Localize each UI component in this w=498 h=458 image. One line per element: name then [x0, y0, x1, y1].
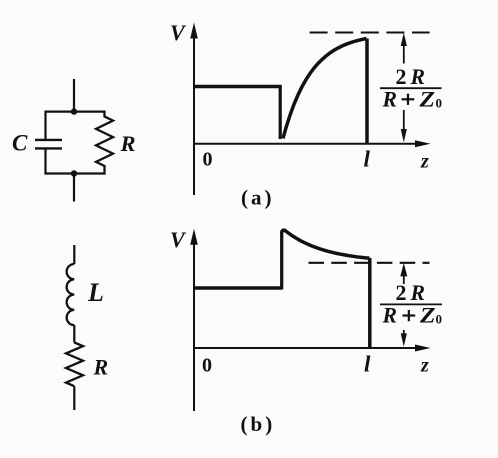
graph (a) dimension arrow lower head — [401, 129, 407, 142]
circuit (a): top horizontal wire — [46, 110, 105, 112]
graph (a) fraction bar — [380, 87, 442, 89]
graph (b) dimension arrow lower shaft — [403, 330, 405, 335]
graph (a) dimension arrow upper head — [401, 33, 407, 46]
svg-text:0: 0 — [436, 96, 443, 111]
graph (b) z axis arrowhead — [415, 345, 431, 352]
capacitor C lower lead wire — [44, 148, 46, 174]
svg-text:0: 0 — [203, 148, 213, 170]
circuit (a): top node junction dot — [71, 108, 77, 114]
graph (a) V axis arrowhead — [190, 23, 198, 39]
graph (b) V axis arrowhead — [190, 229, 198, 245]
svg-text:z: z — [420, 355, 429, 377]
resistor R (circuit a) zigzag — [96, 111, 113, 175]
graph (b) dashed asymptote level — [309, 262, 430, 264]
graph (a) dimension arrow lower shaft — [403, 110, 405, 130]
svg-text:Z: Z — [418, 86, 435, 111]
svg-text:R: R — [93, 355, 109, 380]
svg-text:z: z — [420, 150, 429, 172]
resistor R (circuit b) zigzag — [66, 343, 83, 387]
graph (a) dimension arrow upper shaft — [403, 44, 405, 64]
graph (a) waveform: step trailing drop — [279, 85, 282, 139]
svg-text:R: R — [382, 303, 397, 328]
graph (a) z axis — [193, 143, 419, 145]
svg-text:(a): (a) — [241, 185, 272, 209]
svg-text:l: l — [364, 146, 371, 171]
graph (b) waveform: step rise at reflection — [280, 232, 283, 290]
capacitor C plates — [35, 140, 62, 149]
svg-text:R: R — [410, 280, 425, 305]
svg-text:V: V — [170, 20, 187, 45]
graph (b) V axis — [193, 240, 195, 411]
svg-text:L: L — [87, 278, 104, 307]
svg-text:R: R — [410, 64, 425, 89]
graph (b) waveform: drop at z=l — [368, 258, 372, 347]
circuit (b): top lead wire — [73, 245, 75, 264]
svg-text:(b): (b) — [241, 412, 273, 436]
circuit (a): capacitor C upper lead wire — [44, 111, 46, 140]
svg-text:2: 2 — [396, 64, 407, 89]
graph (b) dimension arrow lower head — [401, 333, 407, 346]
svg-text:l: l — [364, 352, 371, 377]
graph (a) dashed asymptote level — [310, 31, 430, 33]
svg-text:0: 0 — [436, 312, 443, 327]
svg-text:R: R — [120, 131, 136, 156]
graph (a) waveform: rising exponential (RC charging) — [283, 39, 367, 139]
circuit (a): bottom node junction dot — [71, 170, 77, 176]
svg-text:R: R — [382, 86, 397, 111]
graph (a) V axis — [193, 34, 195, 195]
graph (b) fraction bar — [380, 303, 442, 305]
graph (b) waveform: decaying exponential (LR) — [282, 230, 370, 258]
graph (b) waveform: incident step — [194, 286, 282, 290]
graph (b) dimension arrow upper head — [400, 263, 407, 276]
svg-text:C: C — [12, 131, 28, 156]
circuit (a): bottom lead wire — [73, 174, 75, 202]
graph (a) waveform: drop at z=l — [365, 39, 369, 144]
circuit (b): bottom lead wire — [73, 386, 75, 410]
svg-text:2: 2 — [396, 280, 407, 305]
circuit (b): middle wire between L and R — [73, 325, 75, 342]
inductor L coil (4 loops) — [67, 264, 75, 325]
graph (a) z axis arrowhead — [415, 140, 431, 147]
graph (a) waveform: incident step — [194, 85, 282, 89]
circuit (a): bottom horizontal wire — [46, 172, 105, 174]
svg-text:0: 0 — [202, 355, 212, 377]
graph (b) z axis — [193, 347, 419, 349]
svg-text:V: V — [170, 227, 187, 252]
circuit (a): top lead wire — [73, 79, 75, 112]
svg-text:Z: Z — [419, 303, 436, 328]
graph (b) dimension arrow upper shaft — [403, 275, 405, 284]
